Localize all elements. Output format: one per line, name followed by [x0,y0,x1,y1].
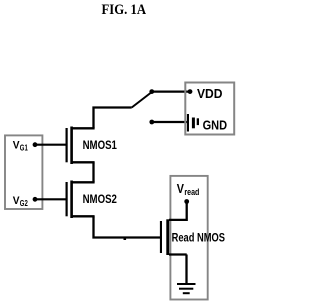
node VG1 [33,142,38,147]
node switch throw to GND [149,120,154,125]
svg-text:FIG. 1A: FIG. 1A [102,2,147,18]
svg-text:Read NMOS: Read NMOS [172,232,226,244]
wire VG2 to NMOS2 gate [35,198,67,200]
box supply VDD/GND [185,83,234,135]
label Vread [177,181,200,197]
junction tick on wire [124,238,127,240]
wire NMOS1 drain up to switch pole [94,108,132,129]
svg-text:G2: G2 [20,199,28,208]
transistor NMOS2 [66,181,95,219]
switch SW blade [132,92,152,108]
wire switch throw to GND battery [152,121,187,123]
svg-text:NMOS1: NMOS1 [83,139,118,152]
wire VG1 to NMOS1 gate [35,144,67,146]
node Vread [184,199,189,204]
wire Vread to Read NMOS drain [169,202,187,220]
label VG2 [13,195,29,208]
wire NMOS1 source to NMOS2 drain [92,162,94,182]
transistor Read NMOS [160,219,187,255]
svg-text:read: read [184,187,199,197]
ground [177,284,196,293]
wire switch throw to VDD terminal [152,90,190,92]
svg-text:G1: G1 [20,143,28,152]
transistor NMOS1 [66,127,95,165]
svg-text:NMOS2: NMOS2 [83,193,118,206]
node switch throw to VDD [149,89,154,94]
label VG1 [13,140,29,153]
svg-text:VDD: VDD [197,86,223,101]
node VG2 [33,197,38,202]
box gate-voltage sources VG1/VG2 [5,135,42,209]
wire NMOS2 source down and right to Read NMOS gate [94,216,161,237]
svg-text:V: V [177,181,184,196]
battery symbol at GND terminal [187,114,199,132]
svg-text:GND: GND [203,118,228,133]
wire Read NMOS source to ground [185,255,187,284]
node VDD terminal [188,89,193,94]
box read transistor [170,176,207,300]
